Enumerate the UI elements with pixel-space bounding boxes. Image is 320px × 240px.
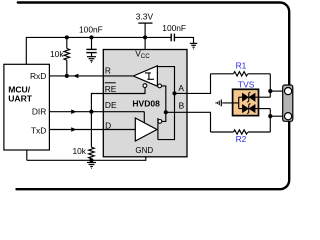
svg-text:UART: UART xyxy=(8,93,33,103)
svg-text:GND: GND xyxy=(135,146,153,155)
tvs top pair leads xyxy=(255,96,270,98)
resistor R2 xyxy=(211,130,271,144)
bubble receiver B input xyxy=(158,84,162,88)
wire A net vertical xyxy=(158,93,175,139)
ground sideways at TVS xyxy=(216,100,222,107)
junction ground net xyxy=(89,158,93,162)
svg-text:TVS: TVS xyxy=(238,80,255,90)
wire DIR/DE line xyxy=(49,111,144,113)
junction pin A xyxy=(268,89,272,93)
hysteresis symbol xyxy=(145,73,154,79)
wire 3.3V rail xyxy=(26,37,171,65)
resistor R1 xyxy=(211,61,271,76)
wire A out xyxy=(175,74,211,94)
ground right of cap xyxy=(190,43,198,49)
supply 3.3V xyxy=(136,11,154,49)
connector J1 xyxy=(283,85,293,121)
wire R line (RxD) xyxy=(49,75,133,77)
ground bottom xyxy=(87,163,96,169)
ground under left cap xyxy=(87,57,96,63)
MCU/UART box U2 xyxy=(4,64,50,150)
svg-text:100nF: 100nF xyxy=(162,23,186,33)
svg-text:HVD08: HVD08 xyxy=(132,98,160,108)
svg-text:3.3V: 3.3V xyxy=(136,11,154,21)
TVS diode D1 xyxy=(222,80,270,116)
svg-text:DIR: DIR xyxy=(32,106,46,116)
svg-text:R2: R2 xyxy=(236,134,247,144)
capacitor 100nF decoupling left xyxy=(79,25,103,57)
tvs common bracket xyxy=(238,97,240,108)
wire B out xyxy=(166,112,211,132)
svg-text:10k: 10k xyxy=(72,146,86,156)
bubble driver inverting output xyxy=(158,120,162,124)
arrowhead R to RxD xyxy=(73,74,78,79)
junction pin B xyxy=(268,114,272,118)
arrowhead DIR xyxy=(71,109,76,114)
svg-text:TxD: TxD xyxy=(31,126,46,136)
svg-text:DE: DE xyxy=(105,100,117,110)
junction A net xyxy=(172,91,176,95)
driver output bar xyxy=(157,118,159,140)
tvs diode pair A xyxy=(242,93,248,101)
wire pin B xyxy=(270,115,284,117)
svg-text:R1: R1 xyxy=(236,61,247,71)
svg-text:D: D xyxy=(105,120,111,130)
driver triangle xyxy=(135,118,157,141)
junction DIR line xyxy=(89,110,93,114)
junction rail 10k xyxy=(65,35,69,39)
resistor 10k pull-down xyxy=(72,112,94,161)
wire pin A xyxy=(270,90,284,92)
svg-text:B: B xyxy=(179,100,185,110)
wire DE enable stub xyxy=(143,112,145,124)
wire MCU ground stub xyxy=(26,150,28,160)
wire TxD/D line xyxy=(49,129,135,131)
arrowhead TxD xyxy=(71,127,76,132)
wire B right vertical xyxy=(269,109,271,132)
wire RE branch riser xyxy=(91,88,145,112)
svg-text:R: R xyxy=(105,65,111,75)
junction R line xyxy=(65,74,69,78)
junction rail vcc xyxy=(143,35,147,39)
junction rail cap xyxy=(89,35,93,39)
wire ground net xyxy=(27,157,146,161)
svg-text:10k: 10k xyxy=(50,49,64,59)
svg-text:100nF: 100nF xyxy=(79,25,103,35)
wire A right vertical xyxy=(269,74,271,97)
svg-text:RE: RE xyxy=(105,84,117,94)
tvs ground lead xyxy=(222,102,238,104)
svg-text:RxD: RxD xyxy=(30,71,46,81)
bubble RE enable xyxy=(143,84,147,88)
wire receiver B link xyxy=(162,86,166,112)
transceiver U1 HVD08 body xyxy=(103,49,187,157)
svg-text:A: A xyxy=(178,83,184,93)
receiver triangle xyxy=(133,66,157,86)
wire receiver A input xyxy=(157,67,174,94)
capacitor 100nF bulk right xyxy=(162,23,193,43)
resistor 10k pull-up xyxy=(50,37,70,76)
wire driver B link xyxy=(162,112,166,121)
tvs diode pair B xyxy=(242,105,248,113)
junction B net xyxy=(164,110,168,114)
enclosure frame xyxy=(17,3,290,190)
